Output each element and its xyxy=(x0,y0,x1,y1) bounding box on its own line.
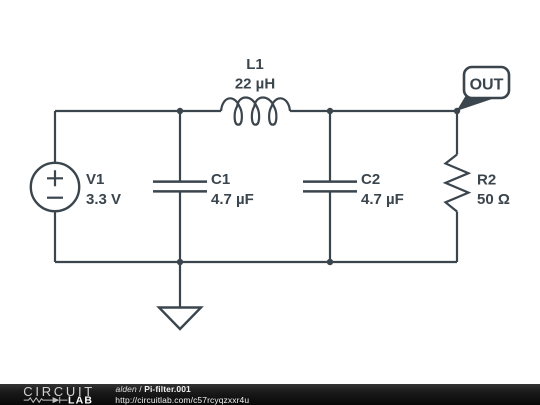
svg-text:22 µH: 22 µH xyxy=(235,76,275,93)
svg-text:4.7 µF: 4.7 µF xyxy=(361,191,404,208)
svg-text:C1: C1 xyxy=(211,171,230,188)
svg-text:OUT: OUT xyxy=(470,77,504,94)
svg-text:50 Ω: 50 Ω xyxy=(477,191,510,208)
svg-text:LAB: LAB xyxy=(68,395,93,405)
svg-text:V1: V1 xyxy=(86,171,104,188)
svg-text:3.3 V: 3.3 V xyxy=(86,191,121,208)
svg-text:R2: R2 xyxy=(477,172,496,189)
svg-text:L1: L1 xyxy=(246,56,264,73)
svg-text:C2: C2 xyxy=(361,171,380,188)
svg-text:4.7 µF: 4.7 µF xyxy=(211,191,254,208)
